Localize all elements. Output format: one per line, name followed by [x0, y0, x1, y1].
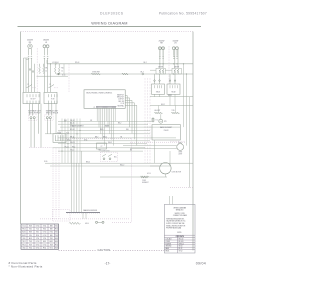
svg-text:BK8: BK8 — [55, 241, 58, 243]
svg-text:YL12: YL12 — [22, 225, 25, 227]
svg-text:BROIL: BROIL — [166, 251, 170, 253]
svg-text:YL-6: YL-6 — [66, 132, 69, 134]
svg-text:RD-5: RD-5 — [100, 129, 104, 131]
left feed wires — [23, 58, 25, 92]
bus junction dots — [49, 62, 52, 65]
svg-text:OVEN VENT: OVEN VENT — [92, 71, 100, 73]
relay box lower stems — [154, 94, 156, 96]
svg-text:BK8: BK8 — [43, 241, 46, 243]
svg-text:W10: W10 — [29, 235, 32, 237]
limiter box RR — [156, 68, 165, 74]
svg-text:HI-LIMIT: HI-LIMIT — [155, 110, 161, 112]
svg-text:DOOR LOCK: DOOR LOCK — [102, 151, 110, 153]
bus L2 — [56, 73, 193, 75]
right vert 1 — [183, 64, 185, 127]
notes box — [164, 204, 195, 253]
svg-text:L1 BK-8: L1 BK-8 — [52, 62, 59, 64]
bus L1 start riser — [46, 60, 48, 64]
svg-text:RD8: RD8 — [29, 225, 32, 227]
svg-text:YL-14: YL-14 — [57, 132, 61, 134]
svg-text:DLEF303CS: DLEF303CS — [100, 12, 124, 16]
EOC pin exit wires right — [125, 95, 127, 97]
svg-text:TN-14: TN-14 — [70, 150, 74, 152]
inline connector box — [97, 143, 107, 149]
svg-text:OR14: OR14 — [36, 247, 40, 249]
door lock motor & switches — [101, 152, 118, 162]
svg-text:CAUTION-: CAUTION- — [98, 248, 112, 252]
wire 177 — [100, 176, 167, 178]
svg-text:VT14: VT14 — [43, 238, 46, 240]
svg-text:BU-2: BU-2 — [118, 123, 121, 125]
long wire 166 — [50, 165, 170, 167]
svg-text:L2 RED: L2 RED — [166, 241, 171, 243]
svg-text:BK8: BK8 — [50, 228, 53, 230]
svg-text:BK-2: BK-2 — [144, 62, 147, 64]
mesh junction dots — [64, 120, 67, 123]
wire color code table — [21, 224, 59, 249]
inline fuse on L2 — [91, 73, 100, 75]
svg-text:BK: BK — [45, 68, 47, 70]
surface switch box RR-LR — [44, 92, 57, 103]
svg-text:TN12: TN12 — [50, 238, 54, 240]
svg-text:BAKE RLY: BAKE RLY — [117, 93, 124, 96]
verticals crossing mesh — [61, 119, 63, 164]
svg-text:* Non-Illustrated Parts: * Non-Illustrated Parts — [9, 265, 43, 269]
right vert 3 — [189, 97, 191, 188]
right wire A — [150, 96, 193, 98]
dashed vertical drop — [131, 139, 133, 223]
svg-text:GY-14: GY-14 — [67, 139, 71, 141]
svg-text:WIRE GAUGE AND AWG NO.: WIRE GAUGE AND AWG NO. — [166, 217, 185, 220]
svg-text:WIRING DIAGRAM: WIRING DIAGRAM — [173, 206, 186, 209]
right border wire — [192, 32, 194, 251]
svg-text:RD 12: RD 12 — [179, 248, 183, 250]
svg-text:BAKE ELEMENT: BAKE ELEMENT — [72, 125, 84, 128]
svg-text:PK-2: PK-2 — [72, 146, 75, 148]
svg-text:CODE DATA: CODE DATA — [176, 235, 184, 238]
broil element zigzag — [141, 176, 149, 178]
svg-text:SWITCH RR-LR: SWITCH RR-LR — [46, 113, 59, 115]
svg-text:OR: OR — [90, 120, 92, 122]
svg-text:GN 10: GN 10 — [179, 246, 183, 248]
wires from units into switches — [28, 58, 30, 92]
svg-text:RF: RF — [29, 42, 32, 44]
surface switch box RF-LF — [23, 92, 40, 103]
dashes near light — [170, 140, 185, 142]
switch box internals — [26, 94, 28, 97]
svg-text:Publication No. 5995417607: Publication No. 5995417607 — [159, 12, 207, 16]
long wire 163 — [45, 162, 193, 164]
svg-text:LF: LF — [45, 42, 48, 44]
svg-text:TN12: TN12 — [43, 228, 47, 230]
right vert 2 — [186, 74, 188, 146]
svg-text:GY-14: GY-14 — [147, 173, 151, 175]
svg-text:WH: WH — [126, 129, 128, 131]
svg-text:RD 8-10: RD 8-10 — [179, 241, 184, 243]
svg-text:-17-: -17- — [105, 261, 111, 265]
svg-text:GY14: GY14 — [43, 232, 47, 234]
oven sensor probe — [160, 114, 162, 119]
svg-text:TCO: TCO — [156, 119, 159, 121]
thermal fuse — [152, 117, 154, 122]
drop between buses — [63, 64, 65, 74]
svg-text:W10: W10 — [23, 238, 26, 240]
component row y113 — [154, 112, 162, 114]
ground resistors — [69, 222, 81, 224]
svg-text:GY14: GY14 — [36, 241, 40, 243]
svg-text:W10: W10 — [55, 232, 58, 234]
dashed collector — [29, 146, 53, 148]
svg-text:RD8: RD8 — [29, 244, 32, 246]
svg-text:2500W: 2500W — [164, 130, 169, 132]
svg-text:OR14: OR14 — [36, 244, 40, 246]
svg-text:NOTE :: NOTE : — [177, 232, 182, 234]
svg-text:RD-8: RD-8 — [75, 62, 79, 64]
svg-text:BU12: BU12 — [22, 232, 26, 234]
svg-text:OVEN: OVEN — [178, 152, 182, 154]
svg-text:H1 H2 P: H1 H2 P — [31, 98, 36, 100]
right dashed stub — [170, 187, 193, 189]
drop wires to chassis area — [71, 151, 73, 212]
svg-text:RELAY: RELAY — [156, 90, 160, 93]
svg-text:BR-7: BR-7 — [95, 136, 98, 138]
small inline connectors left — [29, 69, 31, 71]
svg-text:BAKE: BAKE — [105, 125, 109, 128]
svg-text:N WHITE: N WHITE — [166, 243, 172, 245]
svg-text:VT14: VT14 — [36, 238, 39, 240]
svg-text:TN12: TN12 — [55, 235, 59, 237]
chassis hatched bar — [66, 212, 100, 214]
svg-text:P1: P1 — [94, 107, 96, 109]
dashed verticals left-mid — [52, 148, 54, 219]
svg-text:BAKE ELEMENT: BAKE ELEMENT — [160, 126, 172, 129]
svg-text:RD8: RD8 — [50, 244, 53, 246]
svg-text:W-14: W-14 — [62, 74, 65, 76]
harness mesh horizontal wires — [58, 120, 152, 122]
svg-text:W10: W10 — [36, 232, 39, 234]
left wire — [37, 75, 69, 77]
wire y105 — [150, 105, 193, 107]
svg-text:PK14: PK14 — [43, 247, 47, 249]
svg-text:L1 BLACK: L1 BLACK — [166, 238, 172, 241]
svg-text:H1 H2: H1 H2 — [51, 98, 55, 100]
svg-text:MDL: MDL — [114, 157, 117, 159]
svg-text:LIMITER: LIMITER — [174, 66, 179, 68]
convection motor circle — [160, 163, 171, 174]
dashed under bake box — [130, 141, 185, 143]
svg-text:PK14: PK14 — [36, 235, 40, 237]
svg-text:GROUND: GROUND — [166, 246, 172, 248]
vertical dotted harness columns — [144, 78, 146, 163]
svg-text:BU12: BU12 — [22, 235, 26, 237]
svg-text:TN12: TN12 — [29, 241, 33, 243]
svg-text:W-10: W-10 — [44, 161, 48, 163]
svg-text:W10: W10 — [55, 225, 58, 227]
svg-text:BU12: BU12 — [29, 238, 33, 240]
svg-text:12: 12 — [61, 71, 63, 73]
bake element box — [152, 125, 180, 141]
console dashed top border — [21, 31, 193, 33]
svg-text:BU12: BU12 — [50, 241, 54, 243]
svg-text:ELEMENT: ELEMENT — [142, 182, 149, 184]
motor lead — [150, 165, 160, 167]
svg-text:W10: W10 — [29, 228, 32, 230]
svg-text:BK8: BK8 — [29, 232, 32, 234]
left infinite-switch resistor pairs — [39, 66, 41, 74]
svg-text:GY-8: GY-8 — [84, 139, 87, 141]
svg-text:BK 8-10: BK 8-10 — [179, 239, 184, 241]
indicator plug outline dashes — [29, 115, 38, 121]
svg-text:WH 8-10: WH 8-10 — [179, 243, 184, 245]
svg-text:GY14: GY14 — [36, 225, 40, 227]
svg-text:GY14: GY14 — [43, 244, 47, 246]
svg-text:TN: TN — [120, 136, 122, 138]
svg-text:VT14: VT14 — [43, 225, 46, 227]
svg-text:CONV MOTOR: CONV MOTOR — [172, 171, 182, 173]
svg-text:RR: RR — [160, 43, 163, 45]
relay contact stems — [154, 80, 156, 82]
EOC bottom connector strip — [96, 105, 117, 107]
svg-text:BROIL RLY: BROIL RLY — [117, 97, 124, 99]
svg-text:CONV: CONV — [142, 180, 146, 182]
svg-text:TN12: TN12 — [22, 241, 26, 243]
svg-text:L1 IN: L1 IN — [121, 103, 124, 105]
dashed vert between RR LR — [168, 46, 170, 84]
right unit lead wires — [159, 47, 161, 68]
wires below switch boxes — [29, 104, 31, 116]
svg-text:TN12: TN12 — [29, 247, 33, 249]
svg-text:GY14: GY14 — [50, 232, 54, 234]
svg-text:YL12: YL12 — [36, 228, 39, 230]
svg-text:09/04: 09/04 — [196, 261, 206, 265]
svg-text:DLB RLY: DLB RLY — [118, 99, 124, 101]
svg-text:GY14: GY14 — [43, 235, 47, 237]
svg-text:WH-9: WH-9 — [108, 142, 112, 144]
svg-text:CHASSIS GROUND: CHASSIS GROUND — [83, 209, 98, 212]
relay box 1 — [152, 84, 165, 94]
svg-text:RD-10: RD-10 — [120, 164, 124, 166]
wire bake to 163 — [154, 140, 156, 163]
oven light circle — [177, 144, 184, 151]
dashed bottom run — [112, 222, 132, 224]
svg-text:PK14: PK14 — [55, 228, 59, 230]
wires into chassis — [82, 213, 84, 219]
svg-text:BK-12: BK-12 — [161, 104, 165, 106]
relay box 2 — [167, 84, 180, 94]
dashed run to lock — [66, 138, 132, 140]
notes table — [164, 234, 195, 236]
svg-text:RELAY: RELAY — [171, 90, 175, 93]
svg-text:P7: P7 — [101, 146, 103, 148]
svg-text:WIRING DIAGRAM: WIRING DIAGRAM — [91, 22, 127, 26]
svg-text:BK8: BK8 — [50, 225, 53, 227]
svg-text:BR-14: BR-14 — [103, 136, 107, 138]
caution dashed right — [113, 249, 164, 251]
light lead — [123, 145, 177, 147]
svg-text:SUPPLY CORD KIT SEE THE: SUPPLY CORD KIT SEE THE — [166, 223, 184, 225]
EOC harness wires down — [96, 108, 98, 121]
svg-text:LIGHT: LIGHT — [178, 154, 182, 156]
svg-text:LR: LR — [174, 43, 177, 45]
svg-text:GY-3: GY-3 — [70, 126, 73, 128]
svg-text:BK8: BK8 — [50, 235, 53, 237]
svg-text:ELECTRONIC OVEN CONTROL: ELECTRONIC OVEN CONTROL — [87, 92, 113, 94]
svg-text:PK14: PK14 — [22, 228, 26, 230]
svg-text:TOD: TOD — [172, 110, 176, 112]
svg-text:PK14: PK14 — [22, 244, 26, 246]
svg-text:LIMITER: LIMITER — [158, 66, 163, 68]
svg-text:BK-10: BK-10 — [86, 162, 90, 164]
dashed enclosure — [53, 210, 71, 222]
svg-text:RD8: RD8 — [55, 247, 58, 249]
svg-text:SUPPLY CORD: SUPPLY CORD — [175, 213, 185, 215]
svg-text:W10: W10 — [23, 247, 26, 249]
indicator plug symbols — [30, 117, 32, 119]
dashed vertical x69 — [68, 64, 70, 92]
caution dashed left — [59, 249, 97, 251]
svg-text:GN-10: GN-10 — [85, 223, 89, 225]
header rule — [18, 26, 202, 28]
limiter box LR — [172, 68, 181, 74]
svg-text:VT14: VT14 — [50, 247, 53, 249]
left border wire — [20, 32, 22, 224]
svg-text:BK8: BK8 — [55, 238, 58, 240]
switch contacts — [27, 85, 33, 88]
wire into limiter — [150, 69, 156, 71]
bus L1 — [47, 63, 193, 65]
svg-text:OR 12: OR 12 — [179, 251, 183, 253]
electronic oven control box — [84, 90, 125, 109]
svg-text:BK: BK — [130, 150, 132, 152]
stubs into notes box — [169, 196, 171, 204]
svg-text:12: 12 — [45, 71, 47, 73]
svg-text:PK14: PK14 — [55, 244, 59, 246]
junction — [58, 73, 60, 75]
lead connectors — [28, 56, 29, 58]
dashed oven-body line — [40, 218, 130, 220]
connector P3 — [53, 134, 66, 143]
svg-text:RTD: RTD — [164, 121, 167, 123]
svg-text:MDL SW: MDL SW — [118, 101, 124, 103]
